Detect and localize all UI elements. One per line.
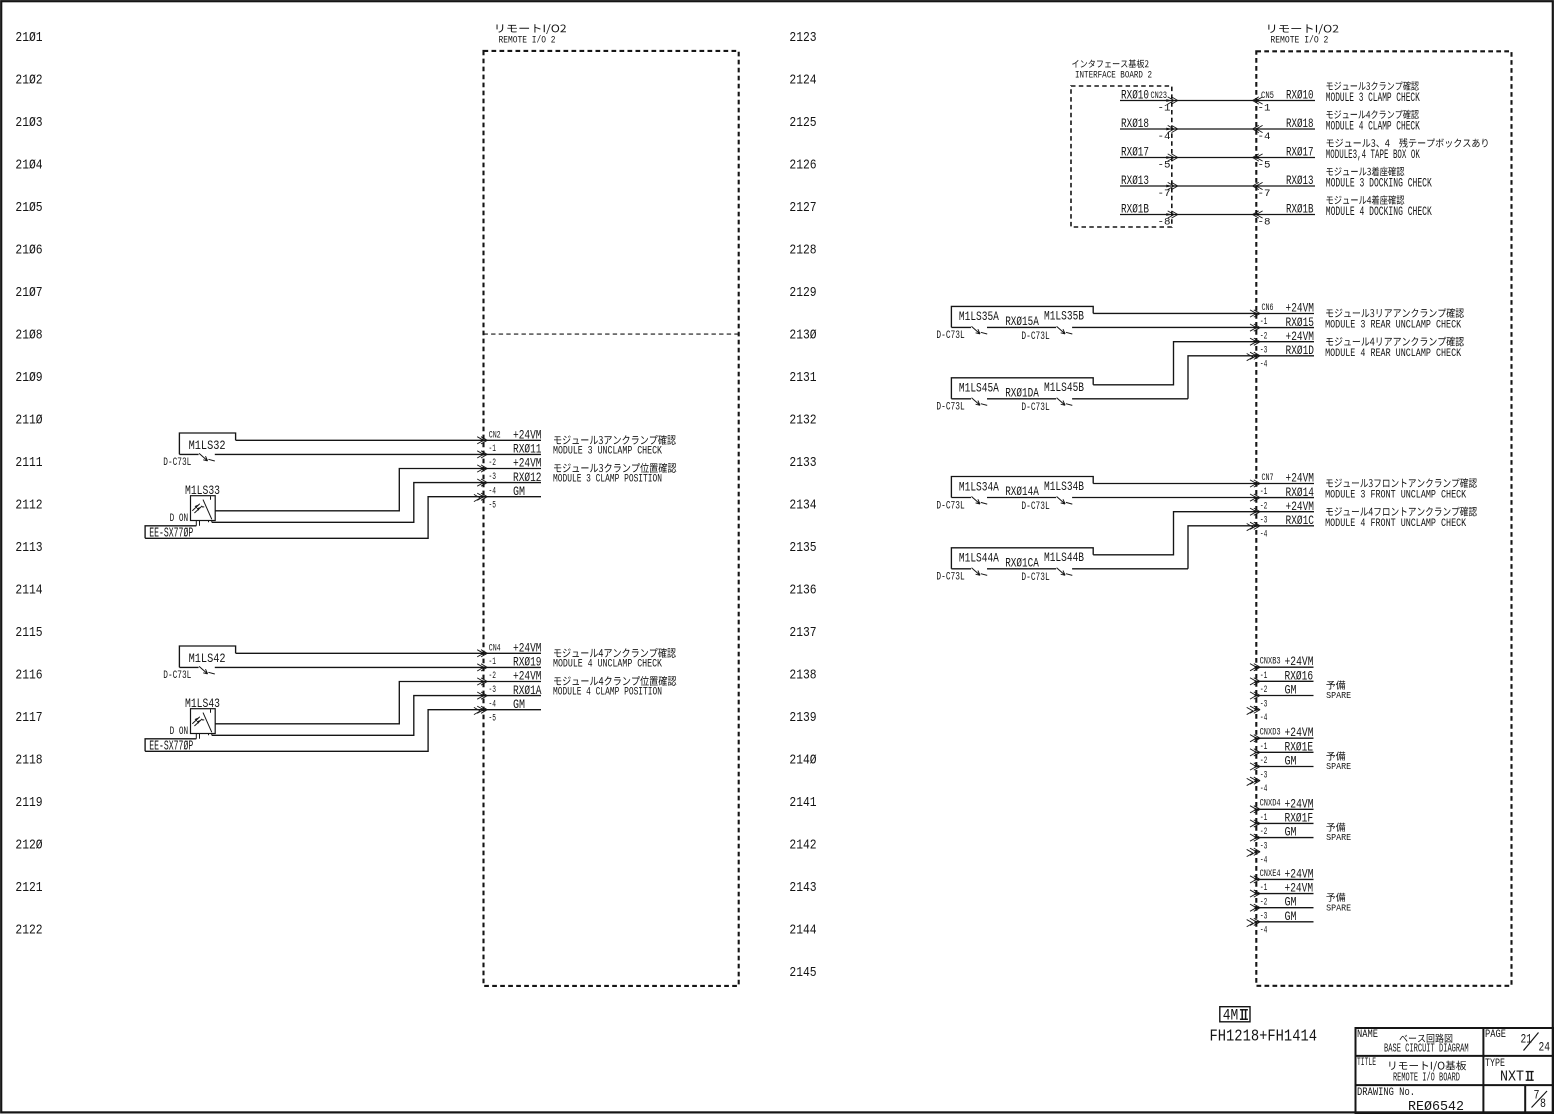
svg-text:GM: GM xyxy=(1285,754,1297,769)
svg-text:D-C73L: D-C73L xyxy=(1021,402,1049,414)
svg-text:MODULE 4 CLAMP CHECK: MODULE 4 CLAMP CHECK xyxy=(1326,120,1420,134)
svg-text:-7: -7 xyxy=(1258,189,1271,200)
svg-text:-3: -3 xyxy=(1260,699,1268,710)
wire +24VM pin3 from M1LS33 output xyxy=(215,469,541,511)
svg-text:D ON: D ON xyxy=(170,513,189,525)
svg-text:RXØ10: RXØ10 xyxy=(1121,88,1149,103)
annotation MODULE 4 UNCLAMP CHECK xyxy=(554,648,676,658)
svg-text:-2: -2 xyxy=(1260,685,1268,696)
svg-text:2116: 2116 xyxy=(15,668,42,683)
wire CN4 pin1 +24VM from M1LS42 xyxy=(236,652,541,654)
svg-text:CNXD3: CNXD3 xyxy=(1260,728,1281,739)
svg-text:2117: 2117 xyxy=(15,711,42,726)
annotation MODULE 4 REAR UNCLAMP CHECK xyxy=(1326,337,1464,347)
wire RXØ19 from M1LS42 contact xyxy=(179,666,198,668)
svg-text:CN5: CN5 xyxy=(1261,91,1274,102)
wire stub pin3 xyxy=(1256,511,1314,513)
remote I/O 2 board (left) internal dashed divider xyxy=(484,333,739,335)
annotation MODULE 4 FRONT UNCLAMP CHECK xyxy=(1326,507,1477,517)
spare connector CNXD3 pin marks xyxy=(1250,735,1260,785)
svg-text:212Ø: 212Ø xyxy=(15,838,42,853)
svg-text:M1LS35A: M1LS35A xyxy=(959,309,999,324)
svg-text:2114: 2114 xyxy=(15,583,42,598)
svg-text:RXØ1E: RXØ1E xyxy=(1285,739,1314,754)
svg-text:-4: -4 xyxy=(1260,713,1268,724)
svg-text:RXØ13: RXØ13 xyxy=(1121,173,1149,188)
spare connector CNXD4 pin marks xyxy=(1250,806,1260,856)
svg-text:21Ø1: 21Ø1 xyxy=(15,31,42,46)
title block horizontal divider 1 xyxy=(1356,1055,1554,1057)
connector CN2 pin marks xyxy=(477,437,487,501)
wire from M1LS34B output xyxy=(1093,483,1256,485)
svg-text:21Ø4: 21Ø4 xyxy=(15,159,42,174)
connector CN4 pin -5 mark (overlapping) xyxy=(474,707,480,714)
svg-text:-8: -8 xyxy=(1158,218,1171,229)
svg-text:GM: GM xyxy=(1285,683,1297,698)
remote I/O 2 board (left) title xyxy=(496,24,566,34)
interface board output mark row 5 xyxy=(1166,211,1178,218)
svg-text:2129: 2129 xyxy=(789,286,816,301)
remote I/O 2 board (left) dashed outline xyxy=(484,51,739,986)
svg-text:2137: 2137 xyxy=(789,626,816,641)
svg-text:-2: -2 xyxy=(1260,827,1268,838)
svg-text:2121: 2121 xyxy=(15,881,42,896)
annotation spare (CNXD4) xyxy=(1326,823,1345,832)
svg-text:211Ø: 211Ø xyxy=(15,414,42,429)
svg-text:-2: -2 xyxy=(1260,501,1268,512)
wire stub CNXD3 pin2 xyxy=(1256,751,1313,753)
svg-text:+24VM: +24VM xyxy=(1285,796,1314,811)
svg-text:MODULE 4 CLAMP POSITION: MODULE 4 CLAMP POSITION xyxy=(553,687,662,699)
svg-text:+24VM: +24VM xyxy=(1285,866,1314,881)
svg-text:2143: 2143 xyxy=(789,881,816,896)
svg-text:2132: 2132 xyxy=(789,414,816,429)
connector CN5 pin -5 mark xyxy=(1253,154,1263,161)
svg-text:RXØ15A: RXØ15A xyxy=(1005,314,1039,329)
svg-text:RXØ18: RXØ18 xyxy=(1121,116,1149,131)
contact symbol of M1LS45B xyxy=(1057,398,1073,406)
svg-text:213Ø: 213Ø xyxy=(789,329,816,344)
wire RXØ1DA vertical to pin 4 xyxy=(1188,356,1256,399)
wire stub pin4 xyxy=(1256,355,1314,357)
svg-text:M1LS44B: M1LS44B xyxy=(1044,550,1084,565)
connector CNXD4 pin -4 mark (overlapping) xyxy=(1247,849,1253,856)
wire stub CNXE4 pin1 xyxy=(1256,878,1313,880)
svg-text:RXØ1CA: RXØ1CA xyxy=(1005,555,1039,570)
svg-text:SPARE: SPARE xyxy=(1326,902,1351,913)
svg-text:2144: 2144 xyxy=(789,923,816,938)
svg-text:2126: 2126 xyxy=(789,159,816,174)
type label box EE-SX770P of M1LS33 xyxy=(145,526,196,539)
wire stub CNXB3 pin3 xyxy=(1256,695,1313,697)
svg-text:RXØ18: RXØ18 xyxy=(1286,116,1314,131)
wire stub pin2 xyxy=(1256,497,1314,499)
svg-text:REMOTE I/O 2: REMOTE I/O 2 xyxy=(499,34,556,46)
wire stub pin1 xyxy=(1256,483,1314,485)
wire +24VM pin3 from M1LS43 output xyxy=(215,682,541,724)
connector CN2 pin -5 mark (overlapping) xyxy=(474,494,480,501)
svg-text:-1: -1 xyxy=(1260,671,1268,682)
svg-text:M1LS35B: M1LS35B xyxy=(1044,309,1084,324)
svg-text:-4: -4 xyxy=(1158,132,1171,143)
reed switch sensor M1LS42 (D-C73L) xyxy=(179,646,235,667)
wire stub CNXB3 pin2 xyxy=(1256,680,1313,682)
svg-text:TYPE: TYPE xyxy=(1485,1058,1505,1070)
roman numeral II of NXT II xyxy=(1526,1072,1534,1081)
svg-text:8: 8 xyxy=(1540,1097,1546,1111)
svg-text:-5: -5 xyxy=(1158,161,1171,172)
svg-text:MODULE 4 REAR UNCLAMP CHECK: MODULE 4 REAR UNCLAMP CHECK xyxy=(1325,348,1461,360)
svg-text:GM: GM xyxy=(1285,895,1297,910)
svg-text:D-C73L: D-C73L xyxy=(163,457,191,469)
connector CNXD3 pin -4 mark (overlapping) xyxy=(1247,778,1253,785)
svg-text:-1: -1 xyxy=(1158,104,1171,115)
wire stub CNXB3 pin1 xyxy=(1256,666,1313,668)
svg-text:-4: -4 xyxy=(1258,132,1271,143)
svg-text:BASE CIRCUIT DIAGRAM: BASE CIRCUIT DIAGRAM xyxy=(1384,1042,1469,1056)
svg-text:21Ø7: 21Ø7 xyxy=(15,286,42,301)
svg-text:M1LS34A: M1LS34A xyxy=(959,479,999,494)
wire RXØ1CA through contacts xyxy=(951,568,971,570)
row reference numbers left column 2101-2122 xyxy=(15,31,42,938)
svg-text:M1LS34B: M1LS34B xyxy=(1044,479,1084,494)
svg-text:-4: -4 xyxy=(489,486,497,497)
wire stub CNXD3 pin3 xyxy=(1256,766,1313,768)
svg-text:2139: 2139 xyxy=(789,711,816,726)
svg-text:GM: GM xyxy=(1285,909,1297,924)
svg-text:-1: -1 xyxy=(1260,317,1268,328)
svg-text:M1LS42: M1LS42 xyxy=(189,651,226,666)
svg-text:21Ø2: 21Ø2 xyxy=(15,74,42,89)
svg-text:MODULE 3 FRONT UNCLAMP CHECK: MODULE 3 FRONT UNCLAMP CHECK xyxy=(1325,490,1466,502)
svg-text:2113: 2113 xyxy=(15,541,42,556)
svg-text:21Ø8: 21Ø8 xyxy=(15,329,42,344)
wire RXØ1A from M1LS43 xyxy=(212,696,541,736)
annotation MODULE 3 CLAMP POSITION xyxy=(554,463,676,473)
svg-text:D-C73L: D-C73L xyxy=(936,572,964,584)
svg-text:-3: -3 xyxy=(1260,911,1268,922)
svg-text:D-C73L: D-C73L xyxy=(936,330,964,342)
svg-text:2118: 2118 xyxy=(15,753,42,768)
svg-text:2123: 2123 xyxy=(789,31,816,46)
svg-text:21Ø3: 21Ø3 xyxy=(15,116,42,131)
svg-text:GM: GM xyxy=(1285,825,1297,840)
svg-text:2115: 2115 xyxy=(15,626,42,641)
svg-text:-3: -3 xyxy=(1260,841,1268,852)
svg-text:-1: -1 xyxy=(1260,883,1268,894)
svg-text:-2: -2 xyxy=(489,671,497,682)
connector CN7 pin -4 mark (overlapping) xyxy=(1247,524,1253,531)
svg-text:DRAWING No.: DRAWING No. xyxy=(1357,1087,1415,1099)
svg-text:MODULE 3 DOCKING CHECK: MODULE 3 DOCKING CHECK xyxy=(1326,177,1432,191)
interface board output mark row 2 xyxy=(1166,125,1178,132)
contact symbol of M1LS44A xyxy=(972,568,988,576)
wire stub CNXD3 pin1 xyxy=(1256,737,1313,739)
svg-text:PAGE: PAGE xyxy=(1485,1029,1506,1041)
svg-text:MODULE 4 UNCLAMP CHECK: MODULE 4 UNCLAMP CHECK xyxy=(553,659,662,671)
svg-text:SPARE: SPARE xyxy=(1326,761,1351,772)
annotation module 4 clamp check xyxy=(1326,110,1418,119)
svg-text:4M: 4M xyxy=(1223,1007,1239,1025)
spare connector CNXB3 pin marks xyxy=(1250,664,1260,714)
series reed switches M1LS45A / M1LS45B xyxy=(951,378,1093,399)
svg-text:-1: -1 xyxy=(1260,742,1268,753)
svg-text:-1: -1 xyxy=(1260,813,1268,824)
svg-text:21Ø9: 21Ø9 xyxy=(15,371,42,386)
interface board 2 title xyxy=(1072,59,1148,68)
remote I/O 2 board (right) title xyxy=(1268,24,1338,34)
svg-text:2125: 2125 xyxy=(789,116,816,131)
svg-text:-2: -2 xyxy=(1260,897,1268,908)
contact symbol of M1LS34A xyxy=(972,497,988,505)
svg-text:-5: -5 xyxy=(1258,161,1271,172)
annotation spare (CNXB3) xyxy=(1326,681,1345,690)
wire stub pin1 xyxy=(1256,313,1314,315)
svg-text:-4: -4 xyxy=(1260,855,1268,866)
svg-text:2136: 2136 xyxy=(789,583,816,598)
annotation spare (CNXD3) xyxy=(1326,752,1345,761)
svg-text:2119: 2119 xyxy=(15,796,42,811)
svg-text:24: 24 xyxy=(1539,1041,1551,1055)
series reed switches M1LS34A / M1LS34B xyxy=(951,477,1093,498)
svg-text:CNXB3: CNXB3 xyxy=(1260,657,1281,668)
wire RXØ10 (interface board to remote I/O) xyxy=(1120,100,1315,102)
svg-text:2134: 2134 xyxy=(789,499,816,514)
spare connector CNXE4 pin marks xyxy=(1250,876,1260,926)
svg-text:SPARE: SPARE xyxy=(1326,690,1351,701)
svg-text:M1LS45B: M1LS45B xyxy=(1044,380,1084,395)
svg-text:TITLE: TITLE xyxy=(1357,1057,1376,1069)
svg-text:-2: -2 xyxy=(1260,756,1268,767)
connector CN5 pin -7 mark xyxy=(1253,182,1263,189)
svg-text:-1: -1 xyxy=(489,444,497,455)
svg-text:2124: 2124 xyxy=(789,74,816,89)
svg-text:M1LS43: M1LS43 xyxy=(185,696,220,711)
svg-text:-3: -3 xyxy=(489,472,497,483)
wire from M1LS45B output xyxy=(1093,342,1256,385)
svg-text:MODULE 4 DOCKING CHECK: MODULE 4 DOCKING CHECK xyxy=(1326,205,1432,219)
svg-text:REMOTE I/O 2: REMOTE I/O 2 xyxy=(1270,35,1328,47)
reed switch sensor M1LS32 (D-C73L) xyxy=(179,433,235,454)
svg-text:REØ6542: REØ6542 xyxy=(1408,1099,1464,1114)
series reed switches M1LS35A / M1LS35B xyxy=(951,306,1093,327)
wire RXØ1B (interface board to remote I/O) xyxy=(1120,214,1315,216)
wire RXØ18 (interface board to remote I/O) xyxy=(1120,128,1315,130)
svg-text:21Ø6: 21Ø6 xyxy=(15,244,42,259)
wire from M1LS35B output xyxy=(1093,312,1256,314)
svg-text:2131: 2131 xyxy=(789,371,816,386)
contact symbol of M1LS32 xyxy=(199,453,215,461)
svg-text:RXØ1F: RXØ1F xyxy=(1285,810,1314,825)
svg-text:D ON: D ON xyxy=(170,726,189,738)
svg-text:2141: 2141 xyxy=(789,796,816,811)
svg-text:M1LS45A: M1LS45A xyxy=(959,381,999,396)
wire from M1LS44B output xyxy=(1093,512,1256,555)
wire RXØ13 (interface board to remote I/O) xyxy=(1120,185,1315,187)
svg-text:EE-SX77ØP: EE-SX77ØP xyxy=(149,527,193,542)
svg-text:RXØ14A: RXØ14A xyxy=(1005,484,1039,499)
interface board output mark row 4 xyxy=(1166,182,1178,189)
svg-text:2112: 2112 xyxy=(15,499,42,514)
svg-text:21Ø5: 21Ø5 xyxy=(15,201,42,216)
svg-text:RXØ13: RXØ13 xyxy=(1286,173,1314,188)
svg-text:INTERFACE BOARD 2: INTERFACE BOARD 2 xyxy=(1075,70,1152,82)
svg-text:-4: -4 xyxy=(1260,529,1268,540)
connector CN7 pin marks xyxy=(1250,480,1260,530)
wire RXØ1DA through contacts xyxy=(951,398,971,400)
remote I/O 2 board (right) dashed outline xyxy=(1256,51,1511,986)
svg-text:EE-SX77ØP: EE-SX77ØP xyxy=(149,740,193,755)
wire GM from M1LS43 ground xyxy=(145,710,541,752)
svg-text:M1LS44A: M1LS44A xyxy=(959,551,999,566)
connector CNXB3 pin -4 mark (overlapping) xyxy=(1247,707,1253,714)
svg-text:CN6: CN6 xyxy=(1262,303,1274,314)
svg-text:-3: -3 xyxy=(489,685,497,696)
svg-text:2122: 2122 xyxy=(15,923,42,938)
svg-text:CNXD4: CNXD4 xyxy=(1260,799,1281,810)
connector CN6 pin marks xyxy=(1250,310,1260,360)
svg-text:D-C73L: D-C73L xyxy=(1021,572,1049,584)
wire stub CNXE4 pin2 xyxy=(1256,893,1313,895)
svg-text:D-C73L: D-C73L xyxy=(1021,501,1049,513)
svg-text:MODULE3,4 TAPE BOX OK: MODULE3,4 TAPE BOX OK xyxy=(1326,148,1420,162)
wire stub pin3 xyxy=(1256,341,1314,343)
connector CN6 pin -4 mark (overlapping) xyxy=(1247,354,1253,361)
svg-text:2133: 2133 xyxy=(789,456,816,471)
svg-text:RXØ16: RXØ16 xyxy=(1285,668,1314,683)
contact symbol of M1LS35A xyxy=(972,326,988,334)
svg-text:MODULE 3 CLAMP POSITION: MODULE 3 CLAMP POSITION xyxy=(553,474,662,486)
svg-text:+24VM: +24VM xyxy=(1285,881,1314,896)
svg-text:-8: -8 xyxy=(1258,218,1271,229)
svg-text:-5: -5 xyxy=(489,501,497,512)
wire GM from M1LS33 ground xyxy=(145,497,541,539)
connector CN4 pin marks xyxy=(477,650,487,714)
svg-text:-3: -3 xyxy=(1260,345,1268,356)
svg-text:-2: -2 xyxy=(1260,331,1268,342)
svg-text:+24VM: +24VM xyxy=(1285,654,1314,669)
svg-text:-4: -4 xyxy=(1260,925,1268,936)
interface board 2 dashed outline xyxy=(1071,86,1172,227)
title block vertical divider row3 xyxy=(1524,1085,1526,1113)
series reed switches M1LS44A / M1LS44B xyxy=(951,548,1093,569)
annotation spare (CNXE4) xyxy=(1326,893,1345,902)
connector CN5 pin -8 mark xyxy=(1253,211,1263,218)
interface board output mark row 3 xyxy=(1166,154,1178,161)
wire RXØ12 from M1LS33 xyxy=(212,483,541,523)
svg-text:CN7: CN7 xyxy=(1262,473,1274,484)
svg-text:CNXE4: CNXE4 xyxy=(1260,869,1281,880)
svg-text:2142: 2142 xyxy=(789,838,816,853)
annotation MODULE 3 FRONT UNCLAMP CHECK xyxy=(1326,478,1477,488)
svg-text:RXØ17: RXØ17 xyxy=(1286,145,1314,160)
annotation module 3 docking check xyxy=(1326,167,1404,176)
svg-text:21: 21 xyxy=(1521,1032,1533,1046)
contact symbol of M1LS45A xyxy=(972,398,988,406)
svg-text:M1LS33: M1LS33 xyxy=(185,483,220,498)
photoelectric sensor M1LS43 (EE-SX770P) xyxy=(191,709,216,739)
contact symbol of M1LS42 xyxy=(199,666,215,674)
svg-text:D-C73L: D-C73L xyxy=(1021,331,1049,343)
svg-text:REMOTE I/O BOARD: REMOTE I/O BOARD xyxy=(1393,1071,1460,1085)
title block horizontal divider 2 xyxy=(1356,1084,1554,1086)
svg-text:FH1218+FH1414: FH1218+FH1414 xyxy=(1210,1027,1318,1046)
machine type label 4M II box xyxy=(1220,1007,1250,1022)
annotation module 4 docking check xyxy=(1326,195,1404,204)
svg-text:-1: -1 xyxy=(1258,104,1271,115)
photoelectric sensor M1LS33 (EE-SX770P) xyxy=(191,496,216,526)
title block vertical divider xyxy=(1482,1028,1484,1113)
svg-text:-5: -5 xyxy=(489,714,497,725)
wire stub CNXD4 pin3 xyxy=(1256,837,1313,839)
svg-text:MODULE 3 REAR UNCLAMP CHECK: MODULE 3 REAR UNCLAMP CHECK xyxy=(1325,320,1461,332)
wire stub CNXE4 pin4 xyxy=(1256,921,1313,923)
svg-text:2135: 2135 xyxy=(789,541,816,556)
svg-text:MODULE 3 UNCLAMP CHECK: MODULE 3 UNCLAMP CHECK xyxy=(553,446,662,458)
wire RXØ14A through contacts xyxy=(951,497,971,499)
svg-text:+24VM: +24VM xyxy=(1285,725,1314,740)
contact symbol of M1LS35B xyxy=(1057,326,1073,334)
roman numeral II of 4M II xyxy=(1240,1010,1248,1020)
row reference numbers middle column 2123-2145 xyxy=(789,31,816,981)
svg-text:2111: 2111 xyxy=(15,456,42,471)
type label box EE-SX770P of M1LS43 xyxy=(145,739,196,752)
svg-text:2127: 2127 xyxy=(789,201,816,216)
wire stub pin4 xyxy=(1256,525,1314,527)
annotation MODULE 3 UNCLAMP CHECK xyxy=(554,435,676,445)
contact symbol of M1LS34B xyxy=(1057,497,1073,505)
wire stub CNXE4 pin3 xyxy=(1256,907,1313,909)
wire RXØ17 (interface board to remote I/O) xyxy=(1120,157,1315,159)
svg-text:RXØ10: RXØ10 xyxy=(1286,88,1314,103)
interface board output mark row 1 xyxy=(1166,97,1178,104)
svg-text:-4: -4 xyxy=(1260,359,1268,370)
wire stub CNXD4 pin2 xyxy=(1256,822,1313,824)
wire stub CNXD4 pin1 xyxy=(1256,808,1313,810)
svg-text:2128: 2128 xyxy=(789,244,816,259)
svg-text:RXØ1B: RXØ1B xyxy=(1286,202,1314,217)
svg-text:NXT: NXT xyxy=(1500,1070,1524,1086)
wire stub pin2 xyxy=(1256,327,1314,329)
svg-text:2138: 2138 xyxy=(789,668,816,683)
wire RXØ11 from M1LS32 contact xyxy=(179,453,198,455)
svg-text:D-C73L: D-C73L xyxy=(163,670,191,682)
svg-text:NAME: NAME xyxy=(1357,1029,1378,1041)
annotation module 3 clamp check xyxy=(1326,81,1418,90)
svg-text:RXØ1B: RXØ1B xyxy=(1121,202,1149,217)
svg-text:SPARE: SPARE xyxy=(1326,832,1351,843)
svg-text:D-C73L: D-C73L xyxy=(936,500,964,512)
svg-text:-4: -4 xyxy=(1260,784,1268,795)
svg-text:MODULE 4 FRONT UNCLAMP CHECK: MODULE 4 FRONT UNCLAMP CHECK xyxy=(1325,518,1466,530)
connector CNXE4 pin -4 mark (overlapping) xyxy=(1247,920,1253,927)
wire RXØ1CA vertical to pin 4 xyxy=(1188,526,1256,569)
svg-text:M1LS32: M1LS32 xyxy=(189,438,226,453)
svg-text:RXØ17: RXØ17 xyxy=(1121,145,1149,160)
svg-text:CN23: CN23 xyxy=(1151,91,1168,102)
annotation MODULE 4 CLAMP POSITION xyxy=(554,676,676,686)
svg-text:-3: -3 xyxy=(1260,770,1268,781)
svg-text:-4: -4 xyxy=(489,699,497,710)
connector CN5 pin -4 mark xyxy=(1253,125,1263,132)
svg-text:-3: -3 xyxy=(1260,515,1268,526)
svg-text:-1: -1 xyxy=(489,657,497,668)
svg-text:MODULE 3 CLAMP CHECK: MODULE 3 CLAMP CHECK xyxy=(1326,91,1420,105)
wire RXØ15A through contacts xyxy=(951,326,971,328)
title block outline xyxy=(1356,1028,1554,1113)
svg-text:D-C73L: D-C73L xyxy=(936,402,964,414)
wire CN2 pin1 +24VM from M1LS32 xyxy=(236,439,541,441)
